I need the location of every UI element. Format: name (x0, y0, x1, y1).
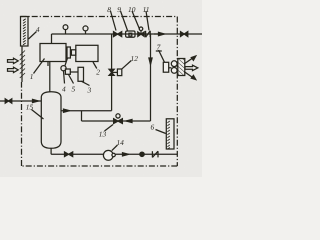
oil drain / pump line (50, 148, 52, 154)
flow arrow on header (159, 32, 165, 35)
svg-text:6: 6 (150, 123, 154, 132)
valve 13 (with round handle) (114, 119, 123, 124)
pipe compressor to vessel (49, 62, 51, 93)
pressure gauge (right) (85, 31, 87, 34)
relay 5 (small square) (65, 69, 70, 74)
valve 10 (valve with round handle) (138, 32, 144, 37)
svg-text:9: 9 (117, 5, 121, 14)
svg-text:2: 2 (96, 67, 100, 76)
label 13 leader (105, 125, 114, 132)
bypass line with valve 13 (82, 120, 151, 122)
pump 14 (103, 150, 113, 160)
label 10 leader (132, 11, 140, 29)
component 9 (box with inner square) (126, 31, 135, 37)
inlet flow arrow (33, 99, 39, 102)
label 8 leader (111, 11, 117, 31)
riser to bypass (x=150.5) (150, 34, 152, 121)
label 6 leader (156, 130, 166, 134)
svg-text:1: 1 (30, 72, 34, 81)
label 5 leader (69, 75, 74, 84)
svg-text:4: 4 (36, 25, 40, 34)
label 4a leader (64, 71, 65, 84)
fan motor 7 (163, 62, 168, 72)
svg-text:12: 12 (131, 54, 139, 63)
air out arrow down-right (184, 72, 193, 78)
label 3 leader (82, 81, 90, 85)
liquid inlet pipe (left) (0, 100, 41, 102)
vessel outlet pipe (right side) (61, 110, 112, 112)
drain valve (65, 152, 73, 157)
enclosure boundary (dash-dot border) (21, 17, 178, 167)
label 1 leader (34, 59, 45, 74)
label 9 leader (121, 11, 128, 31)
label 7 leader (159, 50, 165, 62)
fan hub link (169, 67, 172, 69)
down arrow on riser (149, 58, 152, 65)
heater grille 4 (hatched rect on wall) (21, 17, 29, 47)
fan blades (171, 61, 177, 67)
svg-text:8: 8 (107, 5, 111, 14)
svg-text:11: 11 (143, 5, 150, 14)
flow arrow after pump (123, 153, 129, 156)
labels text (26, 5, 161, 147)
suction riser (x=111.6) (111, 34, 113, 69)
shut-off valve at right border (181, 32, 188, 37)
motor 2 (box) (76, 45, 98, 61)
svg-text:7: 7 (157, 43, 161, 52)
riser from compressor top (51, 34, 53, 44)
label 7 underline (156, 50, 162, 52)
condenser grille (top right, hatched) (178, 59, 185, 76)
discharge header pipe (52, 33, 203, 35)
air out arrow up-right (184, 58, 193, 64)
svg-text:13: 13 (99, 129, 107, 138)
svg-text:14: 14 (116, 138, 124, 147)
svg-text:4: 4 (62, 84, 66, 93)
label 4 leader (29, 32, 37, 40)
valve 8 (bowtie on header) (114, 32, 122, 37)
air inlet block arrow upper (8, 58, 19, 63)
label 14 leader (112, 145, 118, 151)
coupling between 1 and 2 (66, 51, 67, 53)
label 12 leader (122, 61, 131, 69)
air out arrow right (185, 65, 198, 70)
label 2 leader (93, 62, 97, 69)
svg-text:10: 10 (128, 5, 136, 14)
branch down to bypass line (81, 111, 83, 121)
svg-text:3: 3 (86, 85, 91, 94)
compressor 1 (box) (40, 44, 66, 62)
check valve 11 (145, 31, 147, 37)
left flow arrow on bypass (126, 119, 132, 122)
label 15 leader (32, 110, 44, 120)
svg-text:15: 15 (26, 102, 34, 111)
solenoid valve 12 (vertical bowtie) (109, 69, 114, 75)
louver grille 6 (bottom right, hatched) (166, 119, 174, 149)
label 11 leader (146, 11, 149, 30)
air inlet block arrow lower (8, 67, 19, 72)
sight glass (140, 152, 144, 156)
pressure gauge (left) (65, 30, 67, 35)
union symbol (151, 151, 153, 157)
svg-text:5: 5 (71, 84, 75, 93)
receiver vessel 15 (41, 92, 61, 149)
gauge 4a (circle under coupling) (65, 58, 68, 66)
louver wall segment (left, solid with hatch) (21, 46, 23, 82)
control unit 3 (box) (78, 67, 84, 81)
inlet valve (outside border) (5, 99, 12, 103)
flow arrow (64, 109, 70, 112)
link 5 to 3 (70, 71, 78, 73)
